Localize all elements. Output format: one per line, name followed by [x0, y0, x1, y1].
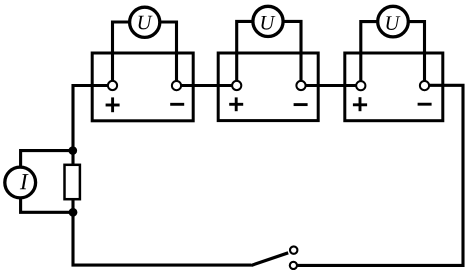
- wire voltmeter U1 left arm: [113, 22, 131, 82]
- voltmeter U2: [253, 6, 283, 36]
- label cell3 plus: [353, 97, 367, 111]
- wire voltmeter U2 right arm: [283, 21, 301, 82]
- wire voltmeter U3 right arm: [408, 22, 425, 82]
- terminal cell3 minus: [420, 81, 429, 90]
- switch S blade: [251, 253, 288, 266]
- wire bottom right rail: [297, 85, 463, 265]
- wire resistor bottom to junction: [71, 199, 74, 212]
- wire ammeter bottom branch: [21, 198, 73, 213]
- terminal cell1 plus: [108, 81, 117, 90]
- wire cell2 to cell3: [306, 84, 357, 87]
- cell box 3: [345, 53, 443, 121]
- label cell2 plus: [229, 97, 243, 111]
- switch S lower contact: [290, 262, 297, 269]
- switch S upper contact: [290, 246, 297, 253]
- wire voltmeter U3 left arm: [361, 22, 378, 82]
- voltmeter U3: [378, 6, 409, 37]
- label cell1 minus: [170, 103, 184, 106]
- label cell2 minus: [294, 103, 308, 106]
- junction node B: [69, 208, 78, 217]
- resistor R: [65, 165, 80, 199]
- wire junction to resistor top: [71, 151, 74, 165]
- terminal cell2 minus: [296, 81, 305, 90]
- label cell3 minus: [418, 103, 432, 106]
- wire ammeter top branch: [21, 151, 73, 168]
- terminal cell2 plus: [232, 81, 241, 90]
- cell box 2: [218, 53, 318, 121]
- wire voltmeter U1 right arm: [160, 22, 177, 82]
- label cell1 plus: [106, 97, 120, 112]
- wire left rail top: [73, 86, 108, 151]
- terminal cell1 minus: [172, 81, 181, 90]
- junction node A: [69, 146, 78, 155]
- wire cell1 to cell2: [181, 84, 232, 87]
- cell box 1: [92, 53, 193, 121]
- terminal cell3 plus: [356, 81, 365, 90]
- wire voltmeter U2 left arm: [237, 21, 253, 82]
- voltmeter U1: [130, 7, 160, 37]
- ammeter I: [5, 167, 36, 198]
- wire bottom left rail: [73, 212, 251, 265]
